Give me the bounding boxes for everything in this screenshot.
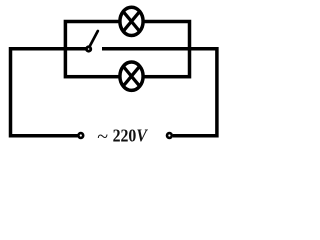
switch S blade (89, 31, 98, 47)
lamp L1 (top) (120, 7, 143, 35)
svg-text:~: ~ (97, 126, 108, 148)
switch S pivot (86, 47, 90, 51)
wire: parallel branch rectangle (65, 22, 189, 77)
terminal (left) (78, 133, 83, 138)
svg-text:220V: 220V (113, 125, 149, 145)
wire: outer right loop (switch fixed contact to right terminal) (102, 49, 217, 136)
wire: outer left loop (left terminal to switch feed) (11, 49, 87, 136)
lamp L2 (bottom) (120, 62, 143, 90)
terminal (right) (167, 133, 172, 138)
